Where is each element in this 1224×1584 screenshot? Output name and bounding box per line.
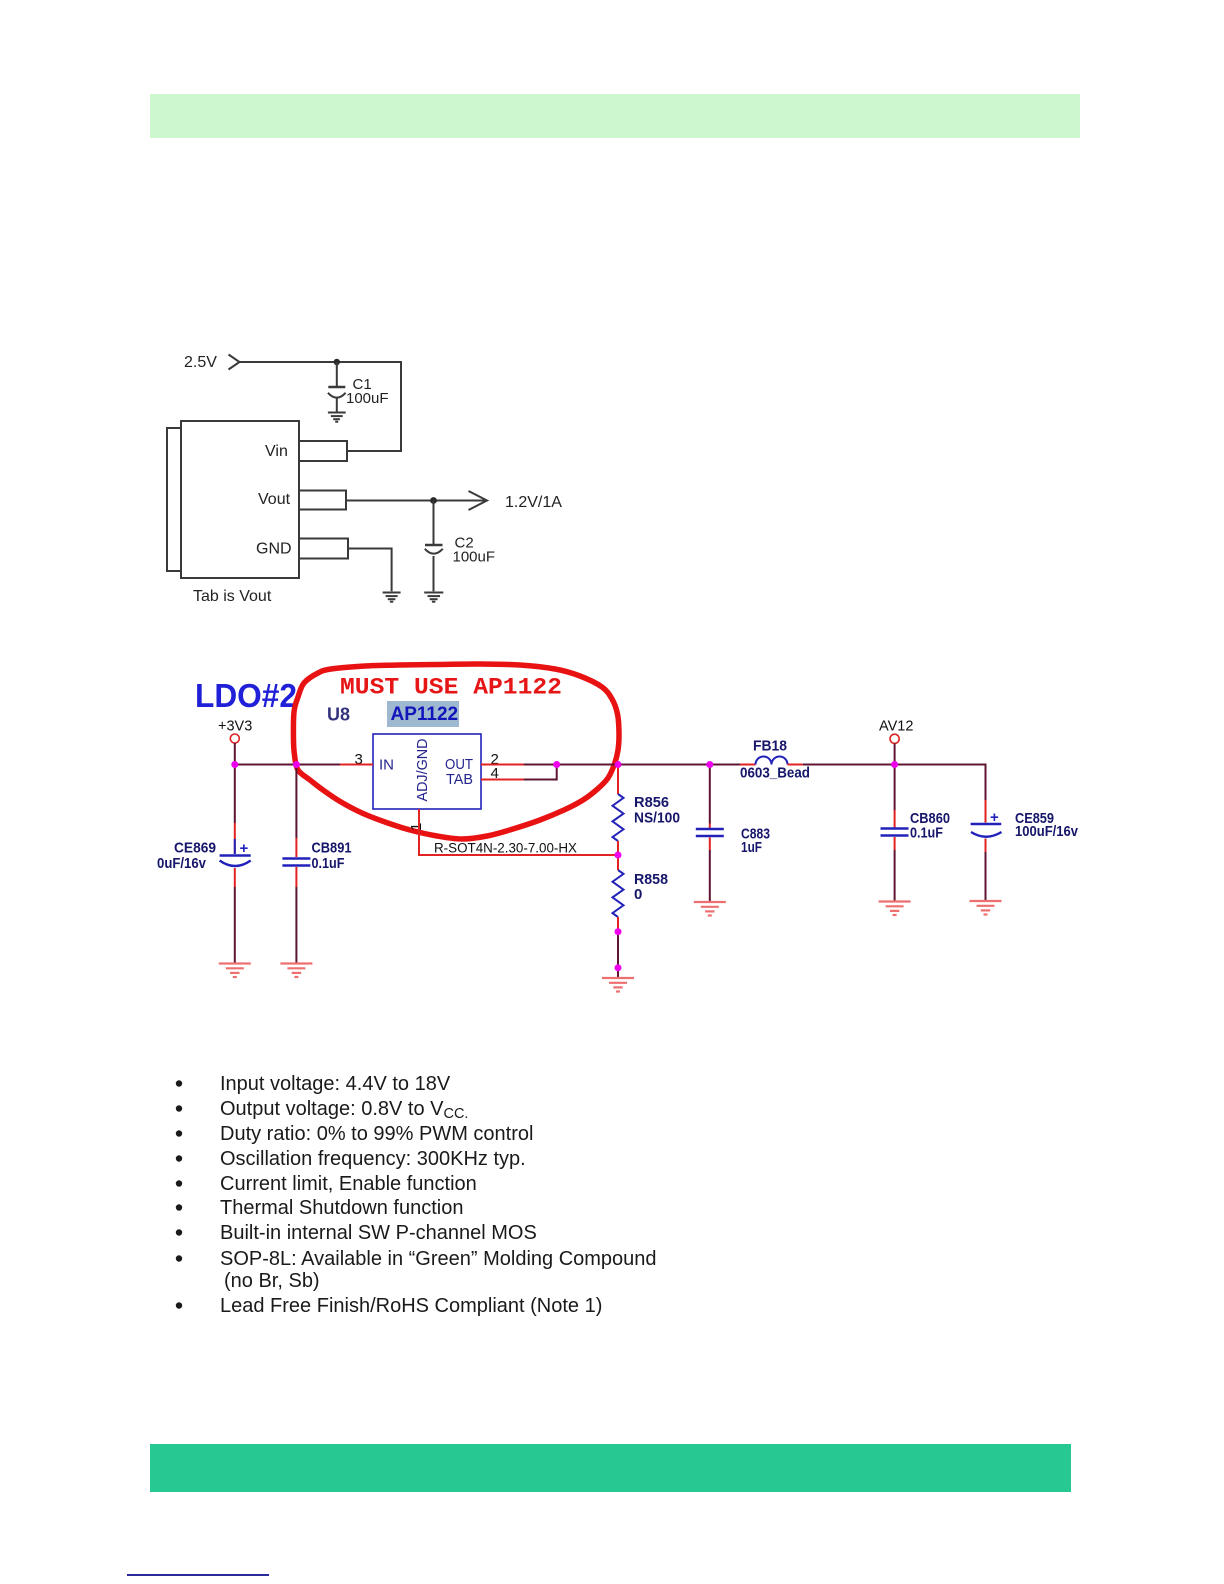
annotation ellipse bbox=[293, 664, 619, 839]
svg-text:R856: R856 bbox=[634, 794, 669, 811]
svg-text:Input voltage: 4.4V to 18V: Input voltage: 4.4V to 18V bbox=[220, 1073, 451, 1095]
regulator U8 body bbox=[373, 734, 481, 809]
svg-text:1uF: 1uF bbox=[741, 839, 762, 856]
wire Vout to output bbox=[346, 500, 485, 502]
svg-text:Oscillation frequency: 300KHz: Oscillation frequency: 300KHz typ. bbox=[220, 1148, 526, 1170]
svg-text:0uF/16v: 0uF/16v bbox=[157, 855, 207, 872]
svg-text:0.1uF: 0.1uF bbox=[910, 825, 943, 842]
wire TAB up to OUT net bbox=[524, 765, 557, 780]
junction +3V3 bbox=[231, 761, 238, 768]
svg-text:Tab is Vout: Tab is Vout bbox=[193, 588, 272, 605]
svg-text:Lead Free Finish/RoHS Complian: Lead Free Finish/RoHS Compliant (Note 1) bbox=[220, 1295, 602, 1317]
svg-text:MUST USE AP1122: MUST USE AP1122 bbox=[340, 675, 562, 701]
capacitor CB891 bbox=[282, 765, 310, 963]
wire AV12 down to bus bbox=[894, 743, 896, 764]
svg-text:0603_Bead: 0603_Bead bbox=[740, 765, 810, 782]
header bar bbox=[150, 94, 1080, 138]
wire GND pin to ground bbox=[348, 549, 392, 592]
svg-text:+: + bbox=[240, 840, 249, 857]
wire bus to CE859 corner bbox=[895, 765, 986, 801]
wire pin4 TAB stub bbox=[481, 779, 524, 781]
wire OUT to bead bbox=[524, 764, 740, 766]
svg-text:AP1122: AP1122 bbox=[391, 704, 459, 725]
wire main bus left bbox=[235, 764, 340, 766]
value AP1122 highlighted bbox=[387, 701, 459, 727]
footer link underline bbox=[127, 1574, 269, 1576]
junction at C2 top bbox=[430, 497, 437, 504]
footer bar bbox=[150, 1444, 1071, 1492]
junction CB891 bbox=[293, 761, 300, 768]
ground under CB860 bbox=[879, 902, 911, 916]
wire pin1 ADJ/GND net bbox=[419, 809, 618, 855]
svg-text:Duty ratio: 0% to 99% PWM cont: Duty ratio: 0% to 99% PWM control bbox=[220, 1123, 533, 1145]
junction C883 top bbox=[706, 761, 713, 768]
svg-text:LDO#2: LDO#2 bbox=[195, 677, 297, 714]
output arrow bbox=[469, 491, 488, 510]
resistor R856 bbox=[613, 765, 624, 856]
resistor R858 bbox=[613, 855, 624, 932]
svg-text:FB18: FB18 bbox=[753, 738, 787, 755]
junction R856/R858 bbox=[615, 852, 622, 859]
svg-text:100uF: 100uF bbox=[346, 390, 389, 407]
capacitor CE869 bbox=[220, 765, 251, 963]
wire pin3 stub bbox=[340, 764, 373, 766]
wire pin2 OUT stub bbox=[481, 764, 524, 766]
svg-text:Vin: Vin bbox=[265, 443, 288, 460]
svg-text:Current limit, Enable function: Current limit, Enable function bbox=[220, 1173, 477, 1195]
svg-text:Vout: Vout bbox=[258, 491, 291, 508]
feature bullet list bbox=[176, 1073, 657, 1317]
svg-text:1: 1 bbox=[408, 823, 425, 831]
svg-text:TAB: TAB bbox=[446, 771, 473, 788]
svg-text:NS/100: NS/100 bbox=[634, 810, 680, 827]
svg-text:R-SOT4N-2.30-7.00-HX: R-SOT4N-2.30-7.00-HX bbox=[434, 841, 577, 856]
regulator tab plate bbox=[167, 428, 181, 571]
svg-text:100uF: 100uF bbox=[453, 549, 496, 566]
svg-text:1.2V/1A: 1.2V/1A bbox=[505, 494, 562, 511]
svg-text:+: + bbox=[990, 809, 999, 826]
svg-text:CB891: CB891 bbox=[312, 840, 352, 857]
junction R858 bottom bbox=[615, 928, 622, 935]
svg-text:Built-in internal SW P-channel: Built-in internal SW P-channel MOS bbox=[220, 1222, 537, 1244]
ferrite bead FB18 stub right bbox=[788, 764, 803, 766]
svg-text:IN: IN bbox=[379, 757, 394, 774]
ground under CB891 bbox=[280, 964, 312, 978]
ground under C2 bbox=[424, 593, 443, 602]
regulator body bbox=[181, 421, 299, 578]
ferrite bead FB18 stub left bbox=[740, 764, 756, 766]
ground under CE869 bbox=[219, 964, 251, 978]
input port arrow bbox=[229, 355, 240, 370]
svg-text:SOP-8L: Available in “Green” M: SOP-8L: Available in “Green” Molding Com… bbox=[220, 1248, 657, 1270]
capacitor C2 bbox=[425, 501, 443, 592]
ground under R858 bbox=[602, 978, 634, 992]
svg-text:2.5V: 2.5V bbox=[184, 354, 217, 371]
power AV12 port circle bbox=[890, 734, 899, 743]
capacitor CB860 bbox=[881, 765, 909, 901]
svg-text:0: 0 bbox=[634, 886, 642, 903]
svg-text:0.1uF: 0.1uF bbox=[312, 855, 345, 872]
junction at C1 top bbox=[334, 359, 340, 365]
svg-text:U8: U8 bbox=[327, 705, 350, 725]
wire bead to AV12 bbox=[803, 764, 895, 766]
junction AV12 bbox=[891, 761, 898, 768]
capacitor C883 bbox=[696, 765, 724, 902]
junction R856 top bbox=[615, 761, 622, 768]
svg-text:100uF/16v: 100uF/16v bbox=[1015, 823, 1079, 840]
junction R858 ground bbox=[615, 964, 622, 971]
junction TAB/OUT bbox=[553, 761, 560, 768]
svg-text:+3V3: +3V3 bbox=[218, 719, 252, 735]
svg-text:Output voltage: 0.8V to VCC.: Output voltage: 0.8V to VCC. bbox=[220, 1098, 468, 1122]
svg-text:Thermal Shutdown function: Thermal Shutdown function bbox=[220, 1197, 463, 1219]
ferrite bead FB18 bbox=[756, 757, 788, 765]
wire 2.5V to C1 top and Vin pin bbox=[240, 362, 402, 451]
svg-text:(no Br, Sb): (no Br, Sb) bbox=[224, 1270, 320, 1292]
wire R858 to ground bbox=[617, 932, 619, 978]
ground under C1 bbox=[328, 413, 346, 422]
ground at GND pin bbox=[383, 593, 401, 602]
capacitor CE859 bbox=[971, 800, 1002, 900]
power +3V3 port circle bbox=[230, 734, 239, 743]
svg-text:CE869: CE869 bbox=[174, 840, 216, 857]
wire +3V3 down to bus bbox=[234, 743, 236, 765]
ground under CE859 bbox=[970, 901, 1002, 915]
capacitor C1 bbox=[328, 362, 346, 412]
svg-text:AV12: AV12 bbox=[879, 719, 913, 735]
svg-text:ADJ/GND: ADJ/GND bbox=[414, 738, 431, 801]
svg-text:GND: GND bbox=[256, 541, 292, 558]
ground under C883 bbox=[694, 902, 726, 916]
